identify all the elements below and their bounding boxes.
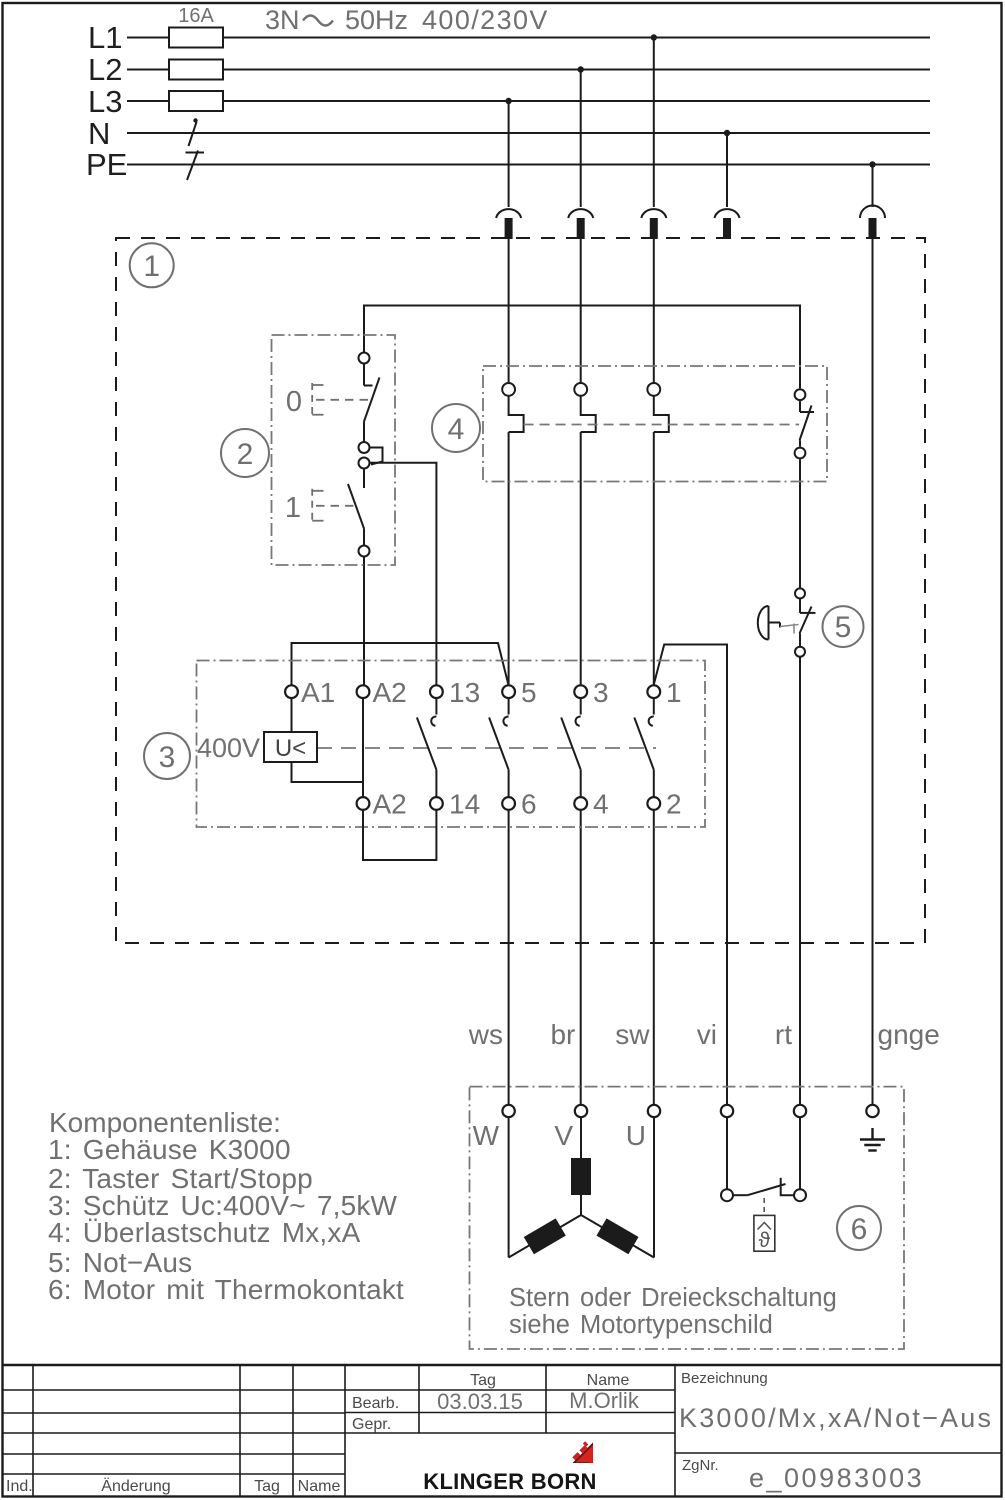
contact 0 NC blade <box>364 364 380 443</box>
svg-text:6: Motor mit Thermokontakt: 6: Motor mit Thermokontakt <box>48 1274 404 1305</box>
terminal V plug <box>575 1105 587 1117</box>
svg-text:L1: L1 <box>88 20 122 55</box>
drawing number divider <box>675 1452 1002 1454</box>
svg-text:ZgNr.: ZgNr. <box>682 1457 719 1474</box>
svg-text:K3000/Mx,xA/Not−Aus: K3000/Mx,xA/Not−Aus <box>679 1403 993 1433</box>
svg-text:1: Gehäuse K3000: 1: Gehäuse K3000 <box>48 1134 291 1165</box>
label circled 1 <box>130 243 174 287</box>
svg-text:4: 4 <box>448 413 465 446</box>
approval table rows <box>345 1390 675 1433</box>
component list text group <box>48 1107 404 1305</box>
PE disconnect slash <box>186 151 205 181</box>
wire A1 feed from terminal 5 <box>292 643 509 686</box>
bracket 1 position <box>312 489 355 522</box>
svg-text:Bearb.: Bearb. <box>352 1395 399 1412</box>
svg-text:6: 6 <box>851 1213 868 1246</box>
terminal rt plug <box>794 1105 806 1117</box>
terminal pushbutton bottom <box>359 546 370 557</box>
thermal sensor dashed link <box>763 1198 765 1215</box>
overload heater L1 <box>647 383 668 432</box>
wire phase L2 connector to overload <box>580 239 582 383</box>
svg-text:400V: 400V <box>197 733 260 763</box>
net L1 rail <box>127 37 930 39</box>
svg-text:Tag: Tag <box>254 1478 280 1495</box>
svg-text:siehe Motortypenschild: siehe Motortypenschild <box>509 1311 773 1339</box>
wire overload to contactor L2 <box>580 432 582 686</box>
junction L2 tap <box>578 66 584 72</box>
contact 5-6 NO <box>489 698 509 797</box>
motor windings group <box>509 1117 654 1257</box>
motor thermocontact group <box>721 1117 806 1252</box>
junction PE tap <box>869 161 875 167</box>
contactor trip link dashed <box>317 747 656 749</box>
svg-text:V: V <box>554 1120 573 1151</box>
wire phase L3 connector to overload <box>508 239 510 383</box>
thermal sensor theta symbol <box>758 1223 772 1253</box>
junction L3 tap <box>505 98 511 104</box>
svg-text:e_00983003: e_00983003 <box>749 1463 924 1493</box>
thermocontact terminal vi <box>721 1189 733 1201</box>
approval table columns <box>419 1365 675 1497</box>
svg-text:U: U <box>626 1120 646 1151</box>
emergency stop actuator link <box>769 623 799 634</box>
svg-text:Ind.: Ind. <box>6 1478 33 1495</box>
terminal A2 top <box>357 685 370 698</box>
svg-text:A2: A2 <box>373 677 407 708</box>
emergency stop terminal top <box>795 588 805 598</box>
connector plug L1 <box>641 209 666 239</box>
terminal A1 <box>285 685 298 698</box>
svg-text:5: 5 <box>835 611 852 644</box>
revision table rows <box>2 1390 345 1474</box>
terminal 13 <box>430 685 443 698</box>
net N rail <box>127 132 930 134</box>
overload relay 4 elements group <box>502 383 814 458</box>
thermal sensor box <box>754 1215 775 1251</box>
winding W bar <box>524 1218 566 1254</box>
label circled 2 <box>221 429 269 477</box>
label supply 3N~ 50Hz 400/230V <box>265 5 549 35</box>
connector plug L2 <box>568 209 593 239</box>
winding V bar <box>571 1158 591 1195</box>
net PE rail <box>127 164 930 166</box>
wire contactor 4 to motor V <box>580 810 582 1105</box>
svg-text:Name: Name <box>298 1478 341 1495</box>
wire L1 tap down <box>653 38 655 208</box>
ground bar 2 <box>864 1144 880 1146</box>
winding U bar <box>596 1218 638 1254</box>
wire A1 to coil <box>291 698 293 732</box>
ground symbol group <box>860 1128 885 1151</box>
terminal pushbutton top <box>359 353 370 364</box>
connector plug N <box>715 209 740 239</box>
svg-text:sw: sw <box>615 1019 650 1050</box>
ground bar 1 <box>860 1138 885 1140</box>
wire coil to A2 <box>292 762 364 782</box>
svg-text:Änderung: Änderung <box>101 1477 170 1495</box>
terminal W plug <box>502 1105 514 1117</box>
emergency stop 5 group <box>758 588 816 656</box>
thermocontact NC blade <box>733 1178 794 1195</box>
svg-text:KLINGER BORN: KLINGER BORN <box>423 1469 597 1494</box>
fuse F1 16A <box>169 28 223 48</box>
terminal U plug <box>648 1105 660 1117</box>
svg-text:3: 3 <box>593 677 609 708</box>
svg-text:Tag: Tag <box>470 1372 496 1389</box>
svg-text:3: 3 <box>159 741 176 774</box>
title block headers group <box>6 1370 768 1495</box>
supply tilde symbol <box>303 16 333 26</box>
svg-text:1: 1 <box>143 250 160 283</box>
wire switch to A2 <box>363 557 365 687</box>
emergency stop terminal bottom <box>795 647 805 657</box>
svg-text:ws: ws <box>468 1019 503 1050</box>
svg-text:5: 5 <box>521 677 537 708</box>
svg-text:50Hz: 50Hz <box>345 5 408 35</box>
contact 3-4 NO <box>561 698 581 797</box>
motor terminal labels group <box>473 1120 646 1151</box>
svg-text:1: 1 <box>666 677 682 708</box>
pushbutton unit 2 dash-dot box <box>272 335 396 565</box>
wire L2 tap down <box>580 70 582 208</box>
title block top edge <box>2 1364 1002 1367</box>
terminal 2 <box>647 797 660 810</box>
svg-text:1: 1 <box>285 492 301 524</box>
label circled 4 <box>432 404 480 452</box>
terminal 3 <box>574 685 587 698</box>
thermocontact terminal rt <box>794 1189 806 1201</box>
main wiring group <box>292 239 873 1105</box>
svg-text:14: 14 <box>449 789 480 820</box>
svg-text:Stern oder Dreieckschaltung: Stern oder Dreieckschaltung <box>509 1284 837 1312</box>
bracket 0 position <box>312 383 369 416</box>
wire colour labels group <box>468 1019 940 1050</box>
overload heater L3 <box>502 383 523 432</box>
plug connectors group <box>496 206 885 240</box>
wire emergency stop to motor rt <box>799 657 801 1105</box>
logo red arrow icon <box>572 1441 593 1463</box>
terminal pushbutton middle lower <box>359 458 370 469</box>
terminal 1 <box>647 685 660 698</box>
contact 1-2 NO <box>634 698 654 797</box>
motor 6 dash-dot box <box>470 1087 905 1349</box>
svg-text:vi: vi <box>697 1019 717 1050</box>
svg-text:U<: U< <box>275 735 306 762</box>
contactor pin labels group <box>301 677 682 820</box>
contactor coil wiring group <box>292 698 437 860</box>
svg-text:W: W <box>473 1120 500 1151</box>
emergency stop mushroom head <box>758 606 769 640</box>
label circled 5 <box>823 606 864 647</box>
svg-text:4: Überlastschutz Mx,xA: 4: Überlastschutz Mx,xA <box>48 1217 361 1248</box>
coil undervoltage U&lt; <box>264 732 317 762</box>
wire phase L1 connector to overload <box>653 239 655 383</box>
revision table columns <box>33 1365 345 1497</box>
label circled 6 <box>837 1206 881 1250</box>
rail tap junctions group <box>505 34 875 207</box>
svg-text:16A: 16A <box>178 5 214 27</box>
svg-text:3N: 3N <box>265 5 300 35</box>
svg-text:M.Orlik: M.Orlik <box>569 1388 640 1413</box>
wire A2 top to A2 bottom <box>362 699 364 798</box>
contact 13-14 NO <box>417 698 437 797</box>
emergency stop NC contact <box>800 598 816 646</box>
wire PE connector to motor plug <box>872 239 874 1105</box>
svg-text:L3: L3 <box>88 84 122 119</box>
junction L1 tap <box>651 34 657 40</box>
svg-text:br: br <box>550 1019 575 1050</box>
contact 1 NO blade <box>348 469 364 546</box>
title block grid group <box>2 1365 1002 1497</box>
connector plug L3 <box>496 209 521 239</box>
fuse F2 <box>169 60 223 80</box>
wire overload NC to emergency stop <box>799 459 801 588</box>
enclosure 1 Gehaeuse K3000 dashed box <box>116 238 925 943</box>
fuse F3 <box>169 91 223 111</box>
svg-text:400/230V: 400/230V <box>422 5 549 35</box>
overload heater L2 <box>574 383 595 432</box>
terminal pushbutton middle upper <box>359 442 370 453</box>
wire overload to contactor L3 <box>508 432 510 686</box>
pushbutton middle bracket link <box>370 448 383 465</box>
junction N tap <box>724 130 730 136</box>
N disconnect slash <box>189 118 198 146</box>
wire rt down <box>799 1117 801 1189</box>
wire control feed horizontal <box>364 306 800 389</box>
wire vi down <box>726 1117 728 1189</box>
svg-text:13: 13 <box>449 677 480 708</box>
svg-text:03.03.15: 03.03.15 <box>437 1389 523 1414</box>
svg-text:gnge: gnge <box>878 1019 940 1050</box>
pushbutton 2 contacts group <box>348 353 383 557</box>
wire switch middle to terminal 13 <box>370 463 437 686</box>
net L3 rail <box>127 100 930 102</box>
svg-text:6: 6 <box>521 789 537 820</box>
label circled 3 <box>144 733 190 779</box>
wire N tap down <box>726 133 728 207</box>
wire V to star <box>580 1117 582 1215</box>
svg-text:rt: rt <box>775 1019 792 1050</box>
wire PE tap down <box>872 165 874 208</box>
overload relay 4 dash-dot box <box>483 366 827 482</box>
svg-text:Bezeichnung: Bezeichnung <box>681 1370 768 1387</box>
terminal 14 <box>430 797 443 810</box>
terminal vi plug <box>721 1105 733 1117</box>
svg-text:A2: A2 <box>373 789 407 820</box>
winding U diagonal <box>581 1215 654 1258</box>
svg-text:Gepr.: Gepr. <box>352 1416 391 1433</box>
wire L3 tap down <box>508 101 510 207</box>
wire overload to contactor L1 <box>653 432 655 686</box>
svg-text:Name: Name <box>587 1372 630 1389</box>
motor plug terminals group <box>502 1105 878 1117</box>
motor note text group <box>509 1284 837 1339</box>
terminal A2 bottom <box>357 797 370 810</box>
svg-text:4: 4 <box>593 789 609 820</box>
svg-text:PE: PE <box>86 147 127 182</box>
svg-text:2: 2 <box>666 789 682 820</box>
svg-text:L2: L2 <box>88 52 122 87</box>
contactor main contacts group <box>417 698 654 797</box>
terminal 6 <box>502 797 515 810</box>
winding W diagonal <box>509 1215 581 1258</box>
rail labels group <box>86 20 127 182</box>
wire U to star <box>653 1117 655 1257</box>
svg-text:N: N <box>88 116 110 151</box>
overload NC contact 95-96 <box>795 389 814 458</box>
connector plug PE <box>860 206 885 240</box>
net L2 rail <box>127 69 930 71</box>
ground wire <box>871 1128 873 1140</box>
contactor terminals group <box>285 685 660 810</box>
svg-text:2: 2 <box>237 438 254 471</box>
svg-text:0: 0 <box>286 386 302 418</box>
overload trip link dashed <box>524 424 799 426</box>
svg-text:A1: A1 <box>301 677 335 708</box>
terminal 5 <box>502 685 515 698</box>
supply rails group <box>127 28 930 181</box>
wire contactor 6 to motor W <box>508 810 510 1105</box>
wire terminal 1 to vi jog <box>654 645 727 1105</box>
terminal 4 <box>574 797 587 810</box>
wire contactor 2 to motor U <box>653 810 655 1105</box>
wire A2 to 14 U-link <box>363 810 436 860</box>
terminal gnge plug <box>866 1105 878 1117</box>
wire W to star <box>508 1117 510 1257</box>
title block values group <box>437 1388 993 1493</box>
svg-text:ϑ: ϑ <box>759 1229 771 1252</box>
ground bar 3 <box>868 1149 876 1151</box>
contactor 3 dash-dot box <box>197 661 706 828</box>
